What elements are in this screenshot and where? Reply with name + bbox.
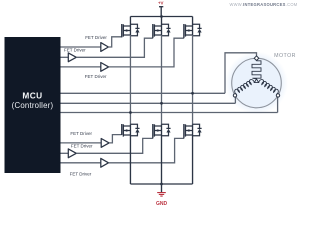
wire: MCU to FET driver 6 input (61, 162, 101, 164)
wire: driver 1 output to Q1 gate (108, 37, 121, 47)
svg-text:+V: +V (158, 1, 164, 6)
+V supply rail (130, 16, 192, 18)
wire: MCU to FET driver 1 input (61, 46, 101, 48)
node: ground rail junction (160, 183, 163, 186)
wire: driver 4 output to Q4 gate (109, 135, 122, 143)
node B junction (160, 102, 163, 105)
wire: node B to motor left terminal (234, 97, 236, 103)
wire: driver 2 output to Q2 gate (76, 38, 153, 57)
FET driver 6 (70, 158, 109, 176)
MOSFET Q1 (high side, phase A) (122, 17, 140, 38)
MOSFET Q3 (high side, phase C) (184, 17, 202, 39)
wire: phase A sense line MCU to node A (61, 112, 278, 114)
svg-text:GND: GND (156, 201, 168, 207)
wire: MCU to FET driver 4 input (61, 142, 102, 144)
wire: driver 5 output to Q5 gate (76, 138, 153, 153)
svg-text:(Controller): (Controller) (12, 101, 54, 110)
wire: phase C sense line MCU to node C (61, 92, 226, 94)
motor winding: left coil (235, 80, 255, 95)
svg-text:FET Driver: FET Driver (70, 131, 92, 136)
wire: Q6 source to ground rail (192, 135, 194, 184)
wire: driver 3 output to Q3 gate (109, 38, 184, 67)
wire: Q5 source to ground rail (161, 135, 163, 184)
ground (156, 184, 168, 207)
node C junction (191, 92, 194, 95)
wire: phase B midpoint vertical (161, 35, 163, 124)
motor M1 (232, 53, 296, 108)
motor winding: top coil (252, 61, 261, 79)
svg-text:FET Driver: FET Driver (85, 35, 107, 40)
wire: phase B sense line MCU to node B (61, 102, 236, 104)
wire: MCU to FET driver 2 input (61, 56, 69, 58)
node: +V rail junction (160, 15, 163, 18)
wire: MCU to FET driver 5 input (61, 152, 69, 154)
wire: node A to motor right terminal (277, 97, 279, 112)
FET driver 1 (85, 35, 108, 51)
MOSFET Q2 (high side, phase B) (153, 17, 171, 39)
motor halo (225, 52, 288, 115)
motor left terminal (233, 94, 236, 97)
svg-text:FET Driver: FET Driver (64, 48, 86, 53)
FET driver 5 (68, 144, 93, 158)
node A junction (129, 111, 132, 114)
svg-text:MOTOR: MOTOR (274, 53, 296, 59)
wire: driver 6 output to Q6 gate (109, 138, 184, 162)
motor winding: right coil (259, 80, 279, 95)
motor star point (254, 79, 258, 83)
svg-text:FET Driver: FET Driver (70, 171, 92, 176)
svg-text:FET Driver: FET Driver (85, 74, 107, 79)
wire: phase A midpoint vertical (129, 35, 131, 124)
ground rail (130, 183, 192, 185)
motor right terminal (276, 94, 279, 97)
wire: MCU to FET driver 3 input (61, 66, 101, 68)
MOSFET Q4 (low side, phase A) (122, 124, 140, 137)
svg-text:FET Driver: FET Driver (71, 144, 93, 149)
MOSFET Q5 (low side, phase B) (153, 124, 171, 138)
svg-text:WWW.INTEGRASOURCES.COM: WWW.INTEGRASOURCES.COM (229, 2, 297, 7)
MCU (Controller) block (5, 37, 61, 173)
+V supply terminal (158, 1, 164, 17)
wire: Q4 source to ground rail (129, 135, 131, 184)
FET driver 4 (70, 131, 109, 147)
motor top terminal (254, 56, 259, 61)
MOSFET Q6 (low side, phase C) (184, 124, 202, 138)
svg-text:MCU: MCU (22, 91, 42, 101)
wire: phase C midpoint vertical (192, 35, 194, 124)
wire: node C to motor top terminal (225, 53, 257, 94)
FET driver 3 (85, 63, 109, 80)
FET driver 2 (64, 48, 86, 62)
